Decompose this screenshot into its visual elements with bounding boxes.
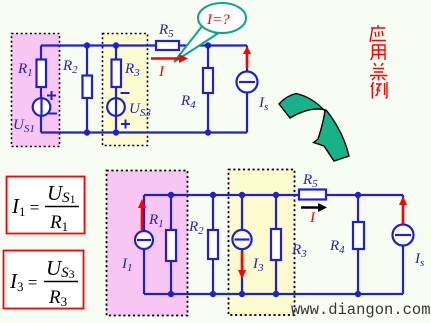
resistor R5 (top circuit)	[156, 41, 179, 50]
red arrow of I1	[141, 207, 144, 230]
node dot top R3b	[273, 192, 279, 198]
minus sign of US1	[48, 113, 57, 115]
node dot bottom R1b	[168, 291, 174, 297]
wire bottom bus (top circuit)	[41, 131, 247, 133]
svg-text:I1 =: I1 =	[11, 194, 39, 219]
red arrow of Is (bottom)	[402, 205, 405, 224]
minus sign of US3	[121, 92, 130, 94]
plus sign of US3	[121, 120, 130, 129]
current source I1	[135, 231, 153, 249]
svg-text:R3: R3	[291, 242, 307, 260]
svg-text:R2: R2	[62, 58, 78, 76]
shaded pink region around US1 R1 (top circuit)	[12, 34, 60, 147]
shaded yellow region around I3 R3 (bottom circuit)	[229, 170, 295, 316]
resistor R4 (bottom)	[353, 222, 364, 249]
voltage source US1	[33, 98, 51, 116]
wire branch Is (bottom circuit right edge)	[402, 195, 404, 294]
resistor R1	[37, 60, 47, 88]
red vertical caption 举	[370, 63, 387, 81]
wire top bus (top circuit)	[41, 44, 247, 46]
wire branch Is (top circuit right edge)	[246, 46, 248, 133]
green curved arrow	[279, 94, 349, 162]
svg-text:I: I	[309, 210, 316, 226]
node dot top R4b	[355, 192, 361, 198]
wire branch R3 (bottom)	[275, 195, 277, 294]
svg-text:Is: Is	[414, 251, 424, 269]
balloon ellipse	[198, 3, 246, 33]
node dot top I3	[239, 192, 245, 198]
black current arrow I (bottom)	[301, 206, 319, 209]
svg-text:R5: R5	[158, 22, 174, 40]
resistor R4 (top circuit)	[203, 68, 213, 93]
resistor R1 (bottom)	[166, 230, 176, 261]
wire branch US3/R3	[115, 46, 117, 133]
svg-text:Is: Is	[258, 95, 268, 113]
shaded yellow region around US3 R3 (top circuit)	[103, 34, 148, 146]
current source Is (top circuit)	[237, 72, 258, 93]
svg-text:I: I	[158, 64, 165, 80]
red arrow of Is (top circuit)	[246, 53, 249, 68]
svg-text:I=?: I=?	[206, 12, 230, 28]
current source Is (bottom)	[393, 225, 414, 246]
svg-text:I3 =: I3 =	[9, 269, 37, 294]
wire branch R1 (bottom)	[170, 195, 172, 294]
resistor R2	[83, 76, 93, 99]
red vertical caption 例	[371, 82, 387, 99]
node dot bottom R4b	[355, 291, 361, 297]
formula box I1 = US1/R1	[7, 177, 85, 234]
formula box I3 = US3/R3	[4, 251, 84, 309]
current source I3	[232, 230, 251, 249]
node dot bottom I3	[239, 291, 245, 297]
node dot bottom R2	[84, 129, 90, 135]
svg-text:R4: R4	[180, 93, 196, 111]
wire branch US1/R1	[40, 46, 42, 133]
wire branch I3	[241, 195, 243, 294]
wire branch R2	[86, 46, 88, 133]
wire branch R4 (bottom)	[357, 195, 359, 294]
wire branch I1	[143, 195, 145, 294]
resistor R5 (bottom)	[299, 190, 326, 200]
wire bottom bus (bottom circuit)	[144, 293, 403, 295]
node dot bottom R3b	[273, 291, 279, 297]
resistor R3	[112, 60, 122, 88]
node dot top R2	[84, 42, 90, 48]
voltage source US3	[107, 98, 125, 116]
resistor R3 (bottom)	[271, 229, 281, 260]
shaded pink region around I1 R1 (bottom circuit)	[107, 171, 188, 316]
wire branch R4	[207, 46, 209, 133]
node dot bottom R4	[205, 129, 211, 135]
balloon tail	[174, 25, 217, 62]
red vertical caption 应	[370, 25, 386, 42]
red arrow of I3	[241, 251, 244, 271]
node dot top US3	[113, 42, 119, 48]
plus sign of US1	[47, 91, 56, 100]
red vertical caption 用	[371, 45, 386, 60]
svg-text:R4: R4	[329, 238, 345, 256]
node dot top R1b	[168, 192, 174, 198]
node dot top R2b	[210, 192, 216, 198]
node dot top R4	[205, 42, 211, 48]
svg-text:R5: R5	[302, 172, 318, 190]
wire top bus (bottom circuit)	[144, 194, 403, 196]
svg-text:www.diangon.com: www.diangon.com	[291, 301, 431, 319]
svg-text:R2: R2	[188, 219, 204, 237]
node dot bottom US3	[113, 129, 119, 135]
node dot bottom R2b	[210, 291, 216, 297]
red current arrow I (top circuit)	[151, 57, 180, 60]
resistor R2 (bottom)	[208, 230, 218, 259]
wire branch R2 (bottom)	[212, 195, 214, 294]
